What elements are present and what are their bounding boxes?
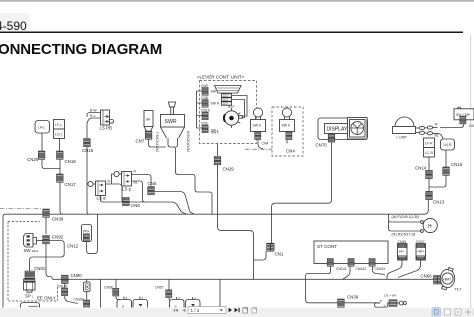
page right edge xyxy=(470,35,472,308)
browser top edge xyxy=(0,0,474,2)
svg-text:CN6: CN6 xyxy=(131,203,140,208)
svg-text:CN17: CN17 xyxy=(65,182,77,187)
wire CN14 down xyxy=(428,179,430,191)
wire SW WH to CN92 xyxy=(37,240,43,242)
svg-text:CN14: CN14 xyxy=(415,166,427,171)
svg-text:ST CONT: ST CONT xyxy=(317,244,337,249)
switch SW K (1) xyxy=(251,108,266,140)
svg-text:CN142: CN142 xyxy=(356,267,367,271)
svg-text:ONNECTING DIAGRAM: ONNECTING DIAGRAM xyxy=(0,41,162,58)
wire CN39 right to LS WH xyxy=(344,302,380,304)
connector CN7 xyxy=(145,131,152,139)
wire internal left bus xyxy=(197,91,203,128)
svg-text:PR+: PR+ xyxy=(83,230,90,234)
switch SW CMP xyxy=(454,107,474,124)
connector CN15 xyxy=(84,139,91,147)
toolbar page-curl icon 2 xyxy=(252,308,257,314)
connector CN29 xyxy=(214,157,221,165)
svg-text:CN58: CN58 xyxy=(104,286,113,290)
wire SWR pigtails xyxy=(168,138,175,147)
wire relay pigtails to bus xyxy=(387,260,402,279)
svg-text:(N1,R)CN37-1B: (N1,R)CN37-1B xyxy=(392,233,417,237)
svg-text:LS PB: LS PB xyxy=(100,126,113,131)
wire LS p plunger stub xyxy=(112,174,114,184)
svg-text:(46,P)CN9-1(L/30): (46,P)CN9-1(L/30) xyxy=(392,215,420,219)
wire drop x100 xyxy=(100,279,102,307)
svg-text:CN12: CN12 xyxy=(67,244,79,249)
header rule xyxy=(0,31,463,33)
chain line into CN38 xyxy=(0,208,42,210)
svg-text:CN4: CN4 xyxy=(286,149,295,154)
limit switch LS a xyxy=(87,181,106,201)
svg-text:CN90: CN90 xyxy=(71,273,83,278)
svg-text:DISPLAY: DISPLAY xyxy=(327,127,348,133)
wire CN15 down to bus xyxy=(87,147,89,214)
toolbar prev icon xyxy=(182,309,185,312)
svg-text:LF-R: LF-R xyxy=(425,142,433,146)
svg-text:SW L: SW L xyxy=(211,131,219,135)
connector CN143 xyxy=(369,259,375,267)
svg-text:(W7,P)CN9-1: (W7,P)CN9-1 xyxy=(156,132,160,152)
lamp LH-L xyxy=(35,121,50,134)
connector CN14 xyxy=(426,170,433,178)
svg-text:R: R xyxy=(380,299,382,303)
svg-text:HR+: HR+ xyxy=(418,250,425,254)
chain line to dashed box xyxy=(245,148,272,150)
right icon 2 xyxy=(445,309,451,315)
svg-text:SW WH1: SW WH1 xyxy=(24,248,39,253)
wire CN16 to CN13 line xyxy=(429,176,446,188)
connector CN16 xyxy=(443,167,450,175)
EE ONLY dashed box xyxy=(8,222,58,302)
svg-text:1L/3: 1L/3 xyxy=(223,98,229,102)
wire CN143 down xyxy=(373,267,386,275)
svg-text:CN57: CN57 xyxy=(155,286,164,290)
lamp LF-R xyxy=(424,138,435,148)
wire lever unit down through CN29 xyxy=(217,144,219,157)
wire CN167 down to CN166 xyxy=(65,296,78,304)
svg-text:EE ONLY: EE ONLY xyxy=(37,296,56,301)
connector CN1 xyxy=(267,243,271,251)
wire bus y279 xyxy=(53,278,434,280)
wire bus A y202 xyxy=(129,202,186,214)
wire LN-R down xyxy=(445,150,447,167)
fuse 9A xyxy=(144,111,153,132)
svg-text:CN4: CN4 xyxy=(262,142,269,146)
wire staircase to bus xyxy=(174,147,213,214)
controller ST CONT xyxy=(314,241,388,264)
wire drop x220 xyxy=(219,279,221,307)
svg-text:CN13: CN13 xyxy=(433,200,445,205)
right icon 3 xyxy=(455,309,461,315)
svg-text:4-590: 4-590 xyxy=(0,19,27,33)
svg-text:SW R: SW R xyxy=(211,102,220,106)
highlight patch behind page number xyxy=(0,13,29,31)
wire left frame vertical xyxy=(2,217,4,308)
svg-text:H: H xyxy=(428,224,432,230)
wire CN5 right then down to bus A xyxy=(154,192,194,214)
wire LS a bottom to CN6 xyxy=(101,196,123,203)
svg-text:LS + WH: LS + WH xyxy=(384,294,396,298)
potentiometer top xyxy=(215,86,242,94)
sensor VBAT TILT xyxy=(440,268,454,290)
svg-text:CN70: CN70 xyxy=(316,143,328,148)
buzzer component xyxy=(84,279,91,299)
connector CN92 xyxy=(43,236,50,244)
lever cont unit dashed box xyxy=(200,81,257,144)
svg-text:CN38: CN38 xyxy=(52,217,64,222)
svg-text:CN92: CN92 xyxy=(52,235,64,240)
svg-text:V: V xyxy=(384,303,386,307)
svg-text:CN16: CN16 xyxy=(451,162,463,167)
svg-text:CN66: CN66 xyxy=(421,274,433,279)
wire CN92 column down to bus xyxy=(46,244,53,279)
connector CN70 xyxy=(328,134,335,142)
wire CN20 down then right xyxy=(42,160,60,169)
svg-text:CN1: CN1 xyxy=(275,252,284,257)
lamp L CMP xyxy=(393,117,416,140)
switch SW WH xyxy=(24,234,39,254)
wire LF-L/LO-L down xyxy=(59,139,61,152)
wire SW K1 pigtail xyxy=(258,140,264,149)
svg-text:TILT: TILT xyxy=(455,288,462,292)
connector CN91 xyxy=(25,271,35,279)
wire CN1 left feed xyxy=(218,214,267,279)
connector CN20 xyxy=(38,151,45,159)
wire CN142 down xyxy=(343,267,350,280)
toolbar page-curl icon 1 xyxy=(243,308,248,314)
svg-text:CN91: CN91 xyxy=(34,266,46,271)
switch SW K (2) xyxy=(280,108,295,144)
display unit xyxy=(318,118,368,140)
relay PR xyxy=(82,225,92,244)
svg-text:1 / 2: 1 / 2 xyxy=(191,308,200,313)
svg-text:9A: 9A xyxy=(146,118,151,122)
lamp LN-R xyxy=(441,139,455,150)
svg-text:CN141: CN141 xyxy=(336,267,347,271)
svg-text:CN5: CN5 xyxy=(148,181,157,186)
connector CN141 xyxy=(327,259,333,267)
connector CN6 xyxy=(123,198,130,206)
svg-text:CN18: CN18 xyxy=(65,159,77,164)
svg-text:CN143: CN143 xyxy=(375,267,386,271)
svg-text:LC-R: LC-R xyxy=(425,151,433,155)
svg-text:HI+: HI+ xyxy=(399,250,404,254)
svg-text:1L/3: 1L/3 xyxy=(223,94,229,98)
svg-text:(W7,R)CN9-R: (W7,R)CN9-R xyxy=(187,130,191,152)
svg-text:CN166: CN166 xyxy=(74,298,85,302)
connector CN38 xyxy=(43,209,50,217)
svg-text:CN29: CN29 xyxy=(223,167,235,172)
svg-text:CN: CN xyxy=(469,124,474,128)
wire CN70 down to ST CONT xyxy=(272,142,332,243)
wire bus drop to horn pair xyxy=(389,214,421,222)
right icon selected blue xyxy=(432,308,441,317)
svg-text:VBAT: VBAT xyxy=(443,278,452,282)
svg-text:SP L: SP L xyxy=(25,294,34,299)
svg-text:LH-R: LH-R xyxy=(444,143,452,147)
horn H xyxy=(421,218,438,232)
svg-text:LS p: LS p xyxy=(122,187,132,192)
svg-text:CN7: CN7 xyxy=(136,139,145,144)
dashed box CN4 xyxy=(272,107,303,156)
svg-text:«LEVER CONT. UNIT»: «LEVER CONT. UNIT» xyxy=(197,75,245,80)
wire CN38 down to CN92 xyxy=(45,218,47,235)
toolbar first page icon xyxy=(174,309,178,312)
connector CN39 xyxy=(338,299,345,307)
lamp LC-R xyxy=(424,148,435,158)
toolbar last page icon xyxy=(235,308,240,312)
wire SW CMP down to lamp R xyxy=(440,124,464,127)
limit switch LS PB xyxy=(100,110,114,131)
rotary dial SST xyxy=(224,108,242,128)
svg-text:LS a: LS a xyxy=(97,196,107,201)
viewer footer bar xyxy=(0,308,474,317)
connector CN142 xyxy=(348,259,354,267)
toolbar page field 1/2 xyxy=(188,307,226,314)
valve pair 1 xyxy=(117,297,148,312)
svg-text:LO-L: LO-L xyxy=(55,133,63,137)
switch SWR joystick xyxy=(156,102,191,152)
cut component bottom-left xyxy=(21,303,40,309)
wire bus drop at x95 to PR loop xyxy=(87,214,98,253)
wire lamp terminals with inline connectors xyxy=(416,127,420,129)
svg-text:CN39: CN39 xyxy=(347,295,359,300)
svg-text:SW K: SW K xyxy=(282,124,291,128)
connector CN5 xyxy=(148,187,155,195)
pot terminal blocks xyxy=(222,94,232,106)
wire pot to dial xyxy=(232,96,248,117)
svg-text:B-W: B-W xyxy=(90,109,97,113)
wire LH-L to CN20 xyxy=(41,133,43,151)
svg-text:BL: BL xyxy=(435,134,439,138)
connector CN18 xyxy=(57,151,64,159)
svg-text:LH-L: LH-L xyxy=(38,126,45,130)
lamp LF-L xyxy=(54,120,65,130)
wire LF-R stack down xyxy=(428,157,430,170)
svg-text:CN20: CN20 xyxy=(27,157,39,162)
lamp LO-L xyxy=(54,129,65,139)
svg-text:L CMP: L CMP xyxy=(397,136,408,140)
wire main bus y214 xyxy=(3,200,428,217)
connector CN90 xyxy=(62,275,69,283)
wire CN7 down right xyxy=(149,140,166,148)
svg-text:SWR: SWR xyxy=(165,119,177,125)
right icon 4 xyxy=(465,309,472,315)
svg-text:LF-L: LF-L xyxy=(55,123,62,127)
wire CN92 loop down to speaker xyxy=(30,241,65,272)
svg-text:SW K: SW K xyxy=(253,124,262,128)
wire CN17 down to bus xyxy=(60,183,63,215)
toolbar next icon xyxy=(229,308,233,312)
speaker SP xyxy=(24,279,36,299)
wire CN29 to bus xyxy=(217,165,219,214)
valve pair 2 xyxy=(170,297,201,312)
wire CN18 to CN17 xyxy=(59,160,61,175)
limit switch LS p xyxy=(114,171,132,191)
wire CN141 down to CN39 drop xyxy=(306,267,338,303)
svg-text:CN15: CN15 xyxy=(82,148,94,153)
connector CN13 xyxy=(426,191,433,199)
connector CN17 xyxy=(57,174,64,182)
